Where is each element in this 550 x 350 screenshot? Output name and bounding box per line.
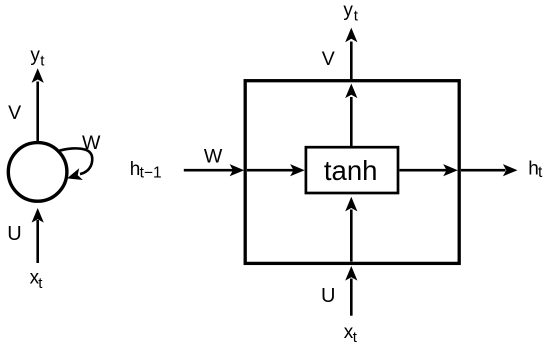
- wire: self-loop W on circle: [57, 148, 92, 184]
- svg-text:t: t: [538, 164, 543, 181]
- svg-text:t: t: [40, 53, 45, 70]
- svg-text:tanh: tanh: [324, 155, 378, 186]
- wire: arrow box edge into tanh: [247, 164, 305, 176]
- svg-text:W: W: [82, 132, 101, 154]
- svg-text:y: y: [343, 0, 353, 21]
- unfolded cell outer box: [245, 81, 459, 264]
- tanh activation box: [306, 147, 398, 193]
- svg-text:U: U: [321, 285, 335, 307]
- label U (right): [321, 285, 335, 307]
- label x_t (left): [30, 268, 44, 292]
- svg-text:t: t: [38, 275, 43, 292]
- wire: output arrow from circle to y_t: [32, 68, 44, 141]
- label W (left loop): [82, 132, 101, 154]
- label h_t (right): [528, 159, 543, 182]
- svg-text:y: y: [30, 45, 40, 66]
- svg-text:V: V: [322, 48, 335, 70]
- label U (left): [7, 223, 21, 245]
- svg-text:t−1: t−1: [140, 164, 162, 181]
- svg-text:W: W: [204, 145, 223, 167]
- label x_t (right): [344, 322, 358, 346]
- wire: arrow box bottom to tanh: [345, 197, 357, 262]
- svg-text:U: U: [7, 223, 21, 245]
- wire: arrow box edge out to h_t: [461, 164, 518, 176]
- label h_t-1: [130, 159, 162, 181]
- wire: arrow h_t-1 into outer box: [184, 164, 244, 176]
- svg-text:V: V: [8, 102, 21, 124]
- label V (right): [322, 48, 335, 70]
- wire: arrow tanh to right box edge: [400, 164, 458, 176]
- wire: arrow x_t up to box bottom: [345, 266, 357, 316]
- wire: arrow tanh top to box top: [345, 84, 357, 148]
- label y_t (left): [30, 45, 45, 69]
- label W (right): [204, 145, 223, 167]
- svg-text:t: t: [353, 329, 358, 346]
- RNN cell circle (folded): [8, 143, 67, 202]
- svg-text:t: t: [354, 7, 359, 24]
- label y_t (right): [343, 0, 358, 24]
- wire: input arrow from x_t to circle: [32, 208, 44, 263]
- wire: arrow box top to y_t: [345, 28, 357, 79]
- label V (left): [8, 102, 21, 124]
